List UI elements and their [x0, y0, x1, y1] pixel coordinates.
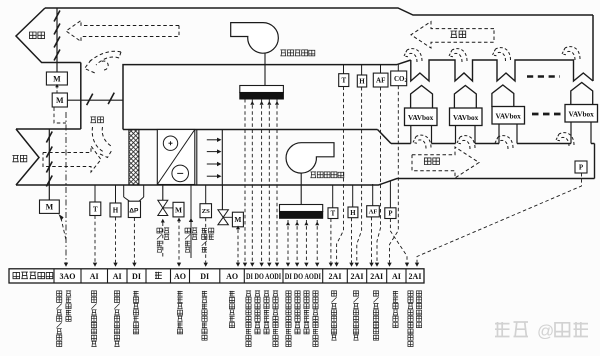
svg-text:2AI: 2AI	[409, 272, 422, 281]
supply H drop	[351, 218, 353, 263]
water supply pipe into coil	[190, 185, 192, 258]
CO2 drop w/ jog	[390, 86, 399, 263]
label 过滤网状态监测 (vertical)	[133, 291, 138, 334]
fresh damper actuator M3	[40, 200, 60, 213]
svg-text:T: T	[331, 211, 336, 218]
supply fan (lower)	[286, 143, 334, 173]
bottom edge of AHU / supply duct bottom	[16, 179, 595, 186]
supply diffuser house 4	[571, 83, 593, 105]
label 加湿阀门调节 (vertical)	[229, 291, 234, 328]
supply duct sensors below AHU: T H AF P	[332, 185, 334, 208]
svg-text:AF: AF	[376, 77, 385, 85]
curl arrow C1	[404, 49, 422, 62]
3AO damper control line (dash-dot)	[65, 112, 67, 263]
label 监控点类型	[13, 272, 53, 279]
label 送风机转速控制 (vertical)	[295, 291, 300, 334]
curved dashed arrow A (air turning to exhaust)	[88, 51, 121, 63]
label 回风	[90, 117, 103, 123]
bold continuation dashes (VAV row)	[532, 113, 562, 116]
svg-text:AO: AO	[174, 272, 186, 281]
svg-text:M: M	[53, 74, 61, 83]
top outer boundary of return/exhaust duct	[45, 8, 593, 15]
pipe below valve (dashed w/ up arrow)	[162, 223, 164, 259]
svg-text:DI: DI	[132, 272, 141, 281]
label 送/回风温度测量 (vertical)	[331, 291, 336, 340]
svg-text:M: M	[56, 96, 64, 105]
sensor CO2 (return)	[391, 71, 407, 86]
supply P drop w/ jog	[390, 219, 407, 263]
svg-text:AO: AO	[226, 272, 238, 281]
filter dP taps	[123, 185, 125, 197]
bold continuation dashes (ceiling)	[527, 75, 560, 78]
label 送风管末端压力检测 (vertical)	[408, 291, 413, 347]
svg-text:AF: AF	[369, 209, 378, 216]
VAVbox 1	[405, 108, 438, 126]
svg-text:2AI: 2AI	[370, 272, 383, 281]
svg-text:DI: DI	[200, 272, 209, 281]
upper return box	[123, 65, 397, 130]
supply fan VFD bar	[280, 205, 323, 212]
VAVbox 3	[492, 107, 525, 125]
svg-text:AI: AI	[90, 272, 99, 281]
monitoring points table	[9, 269, 424, 283]
svg-text:T: T	[93, 205, 98, 213]
svg-text:M: M	[175, 205, 182, 214]
building right edge	[592, 15, 594, 81]
damper actuator M1	[46, 72, 67, 85]
label 空气质量检测 (vertical)	[393, 291, 398, 328]
label 回风机启停控制 (vertical)	[264, 291, 269, 334]
return H drop w/ jog	[357, 87, 362, 263]
frost protection switch ZS	[205, 185, 207, 204]
label 回水 (vertical)	[164, 228, 169, 240]
duct-end P long diagonal	[417, 173, 582, 263]
humidifier section	[196, 130, 198, 186]
svg-text:DI DO AODI: DI DO AODI	[285, 272, 321, 281]
return air damper line	[67, 99, 123, 101]
label 变速送风机	[310, 172, 343, 178]
label 新风	[12, 155, 26, 161]
svg-text:DI DO AODI: DI DO AODI	[246, 272, 281, 281]
svg-text:ΔP: ΔP	[129, 207, 139, 214]
return fan control lines (DI DO AO DI)	[244, 99, 246, 263]
watermark 知乎@老史	[495, 322, 588, 341]
control line valve1 AO	[178, 220, 180, 263]
label 回风(顶部)	[451, 31, 466, 38]
valve V1 actuator M	[163, 207, 173, 209]
heating/cooling coil	[157, 130, 195, 185]
dashed return-to-exhaust flow arrow (left pointing)	[66, 21, 179, 42]
supply diffuser house 2	[454, 86, 476, 108]
curl arrow C3	[493, 48, 511, 61]
return air arrow 回风 (dashed, left pointing)	[411, 22, 494, 49]
control line outdoor H -> AI	[115, 217, 117, 263]
ceiling line with return inlet tabs	[411, 60, 593, 81]
return fan (top)	[231, 23, 279, 54]
control line ZS -> DI	[205, 218, 207, 263]
label 送风机故障状态监测 (vertical)	[313, 291, 318, 347]
svg-text:H: H	[359, 78, 365, 86]
svg-text:3AO: 3AO	[60, 272, 76, 281]
svg-text:VAVbox: VAVbox	[569, 110, 595, 119]
svg-text:T: T	[341, 77, 346, 85]
label 室外/新风温度测量 (vertical)	[91, 291, 96, 347]
svg-text:P: P	[579, 164, 584, 172]
label 送/回风风速检测 (vertical)	[373, 291, 378, 340]
curl arrow D4	[556, 133, 574, 146]
supply diffuser house 1	[411, 86, 433, 108]
chilled/hot water return pipe with valve V1	[162, 185, 164, 200]
curl arrow D3	[495, 136, 513, 149]
label 防冻开关状态监测 (vertical)	[202, 291, 207, 340]
svg-text:H: H	[350, 210, 356, 217]
supply fan control lines (DI DO AO DI)	[287, 220, 289, 263]
curl arrow D1	[413, 135, 431, 148]
dashed fresh-air mixing arrow (right pointing)	[43, 146, 101, 172]
label 送风压力检测 (vertical)	[416, 291, 421, 328]
label 冷/热水2 (vertical)	[185, 228, 190, 252]
fresh air damper drop line	[48, 129, 50, 200]
supply air arrow 送风 (dashed, right pointing)	[412, 147, 479, 178]
label 门开度调节 (vertical)	[66, 291, 71, 321]
supply duct top line segments	[391, 143, 595, 145]
label 送风机运行状态监测 (vertical)	[286, 291, 291, 347]
fresh air damper slashes	[46, 131, 52, 186]
VAVbox 2	[450, 108, 483, 126]
svg-text:H: H	[113, 207, 119, 215]
svg-text:VAVbox: VAVbox	[496, 112, 522, 121]
svg-text:ZS: ZS	[202, 208, 210, 215]
supply fan shaft	[300, 173, 302, 205]
duct pressure sensor P (right)	[575, 161, 587, 173]
control line filter dP -> DI	[133, 218, 135, 263]
svg-text:VAVbox: VAVbox	[453, 113, 479, 122]
supply T drop	[330, 219, 332, 263]
label 送风	[424, 158, 439, 165]
label 回风机故障状态监测 (vertical)	[273, 291, 278, 347]
label 空调水阀门调节 (vertical)	[177, 291, 182, 334]
label 回风机运行状态监测 (vertical)	[246, 291, 251, 347]
fresh air arrow (chevron) 新风	[16, 129, 39, 185]
svg-text:M: M	[234, 215, 241, 224]
label 空	[155, 272, 162, 279]
transition slopes to ceiling/supply duct	[397, 60, 411, 65]
VAVbox 4	[565, 105, 598, 123]
return damper slashes	[87, 93, 115, 105]
label 变速回风机	[280, 50, 314, 56]
valve V2	[218, 210, 229, 225]
label 回风机转速控制 (vertical)	[255, 291, 260, 334]
filter (crosshatch)	[129, 130, 139, 186]
label 冷/热水 (vertical)	[157, 228, 162, 252]
steam/humidifier pipe with valve V2	[221, 185, 223, 210]
dP sensor	[128, 201, 140, 217]
svg-text:2AI: 2AI	[351, 272, 364, 281]
svg-text:P: P	[388, 211, 392, 218]
actuator link M2->M1	[56, 86, 58, 92]
label 送风机启停控制 (vertical)	[304, 291, 309, 334]
control line outdoor T -> AI	[94, 216, 96, 263]
label 排风/回风/新风风 (vertical)	[57, 291, 62, 347]
valve V1 (two triangles)	[158, 200, 168, 215]
supply diffuser house 3	[492, 85, 514, 107]
sensor AF (return)	[373, 73, 388, 87]
exhaust damper slashes	[54, 10, 60, 60]
exhaust air arrow (pentagon) 排风	[16, 8, 81, 63]
return AF drop w/ jog	[377, 87, 381, 263]
svg-text:AI: AI	[392, 272, 401, 281]
fan shaft to VFD bar	[264, 54, 266, 86]
return fan VFD bar	[240, 86, 284, 93]
label 蒸汽/加 (vertical)	[202, 228, 207, 252]
sensor H (return)	[357, 75, 366, 87]
H sensor (outdoor)	[115, 185, 117, 203]
sensor T (return)	[339, 74, 349, 87]
return T drop w/ jog	[337, 87, 344, 263]
svg-text:2AI: 2AI	[329, 272, 342, 281]
curved dashed arrow B (return air into mixing)	[92, 127, 104, 152]
return duct sensor stubs	[343, 65, 345, 74]
svg-text:AI: AI	[113, 272, 122, 281]
VAV inlet stubs	[410, 126, 412, 144]
valve V2 actuator M	[223, 216, 232, 218]
curl arrow D2	[457, 136, 475, 149]
label 送/回风湿度测量 (vertical)	[353, 291, 358, 340]
M3 link to 3AO line	[61, 218, 66, 240]
svg-text:M: M	[46, 203, 54, 212]
exhaust duct drop line	[56, 8, 58, 72]
T sensor (outdoor) stub+box	[94, 185, 96, 202]
left casing wall	[80, 63, 82, 130]
supply AF drop	[371, 217, 373, 263]
label 湿器 (vertical)	[209, 228, 214, 240]
curl arrow C4	[562, 47, 580, 60]
label 供水 (vertical)	[192, 228, 197, 240]
svg-text:@: @	[537, 322, 554, 341]
svg-text:VAVbox: VAVbox	[408, 113, 434, 122]
label 排风	[30, 32, 45, 39]
control line valve2 AO	[237, 230, 239, 263]
damper actuator M2	[52, 93, 67, 107]
supply duct right end	[594, 144, 596, 179]
label 室外/新风湿度测量 (vertical)	[114, 291, 119, 347]
curl arrow C2	[449, 49, 467, 62]
M2 dashed hook	[54, 108, 66, 124]
